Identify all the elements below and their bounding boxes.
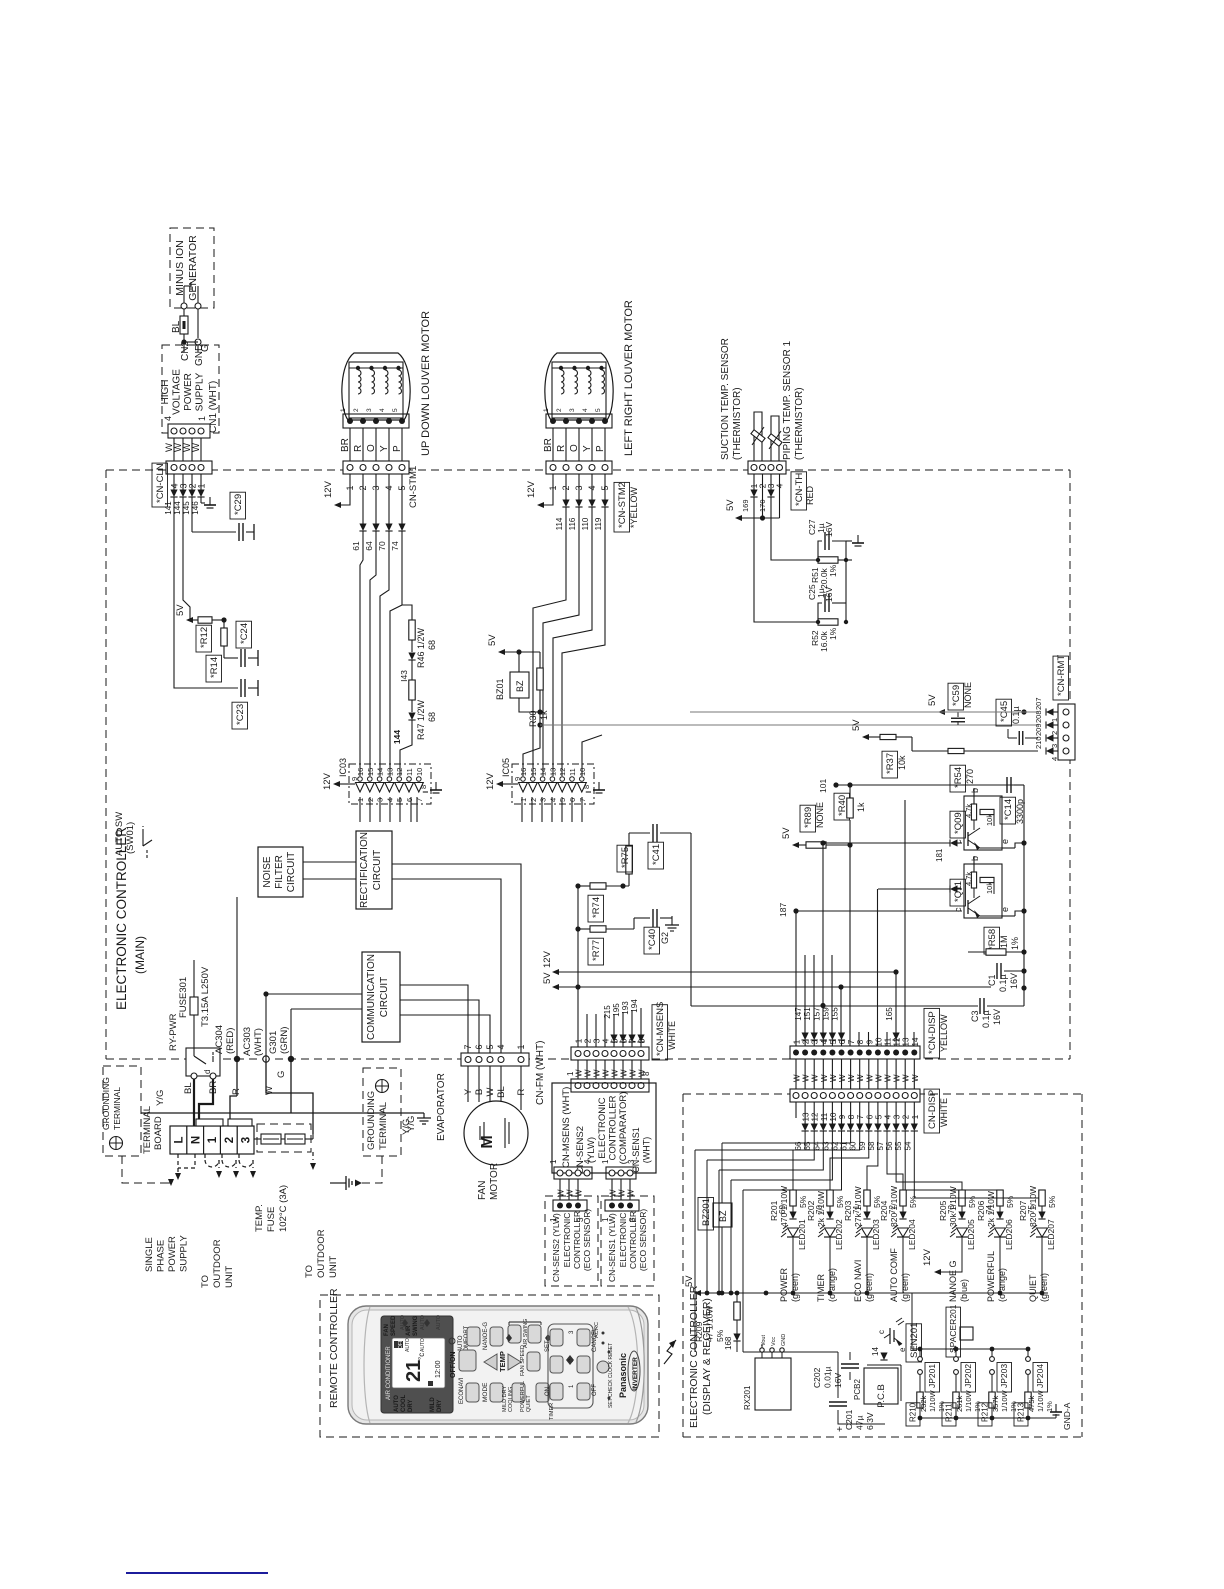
5V arrow top right xyxy=(938,709,945,715)
rectification circuit box xyxy=(356,831,392,909)
svg-text:5: 5 xyxy=(595,408,602,412)
svg-text:MILD: MILD xyxy=(430,1397,436,1412)
svg-text:4: 4 xyxy=(884,1114,893,1119)
svg-text:3: 3 xyxy=(241,1137,253,1143)
resistor R30 1k xyxy=(539,652,541,668)
svg-text:IC03: IC03 xyxy=(338,758,348,777)
wire R AC304 xyxy=(236,897,238,1059)
connector CN-CLN on main board edge xyxy=(166,461,212,474)
connector CN-RMT xyxy=(1058,704,1075,760)
svg-text:144: 144 xyxy=(392,730,402,744)
svg-text:*R58: *R58 xyxy=(987,929,998,950)
svg-text:7: 7 xyxy=(415,798,424,802)
svg-text:COOL: COOL xyxy=(401,1394,407,1412)
svg-text:4: 4 xyxy=(820,1039,829,1044)
wire BL to terminal L xyxy=(193,1079,195,1129)
svg-text:SPACER201: SPACER201 xyxy=(948,1304,958,1353)
svg-text:W: W xyxy=(485,1087,496,1096)
diodes on CN-STM1 wires xyxy=(362,474,364,524)
svg-text:e: e xyxy=(1000,907,1010,912)
staircase wires CN-DISP white to left components xyxy=(695,1131,805,1150)
svg-text:2: 2 xyxy=(224,1137,236,1143)
resistor R58 1M 1% xyxy=(984,927,1000,954)
svg-text:64: 64 xyxy=(364,541,374,551)
svg-text:59: 59 xyxy=(858,1141,867,1150)
svg-text:(green): (green) xyxy=(790,1273,800,1302)
svg-text:2: 2 xyxy=(529,798,538,802)
svg-text:12: 12 xyxy=(395,768,404,776)
svg-text:AUTO: AUTO xyxy=(420,1338,426,1352)
remote controller dashed box xyxy=(320,1295,659,1437)
svg-text:C1: C1 xyxy=(987,974,997,986)
svg-text:187: 187 xyxy=(778,903,788,917)
svg-text:FUSE301: FUSE301 xyxy=(178,977,189,1018)
svg-text:1: 1 xyxy=(207,1136,219,1143)
capacitor C59 NONE xyxy=(948,683,964,710)
svg-text:2: 2 xyxy=(556,408,563,412)
svg-text:2: 2 xyxy=(902,1114,911,1119)
svg-text:NONE: NONE xyxy=(963,682,973,708)
svg-text:168: 168 xyxy=(724,1336,733,1350)
svg-text:(orange): (orange) xyxy=(997,1268,1007,1302)
capacitor C14 3300p xyxy=(1006,777,1008,793)
svg-text:WHITE: WHITE xyxy=(939,1098,949,1127)
svg-text:R: R xyxy=(353,445,364,452)
buzzer BZ201 xyxy=(721,1143,723,1203)
svg-text:DRY: DRY xyxy=(408,1400,414,1412)
resistor R37 10k xyxy=(869,736,880,738)
svg-text:66: 66 xyxy=(794,1141,803,1150)
svg-text:TERMINAL: TERMINAL xyxy=(112,1087,122,1130)
jumper bottom bus to GND-A xyxy=(920,1417,1056,1419)
svg-text:10k: 10k xyxy=(897,755,907,770)
wire vertical 578 xyxy=(577,886,579,1053)
svg-text:CONTROLLER: CONTROLLER xyxy=(572,1211,582,1269)
svg-text:73: 73 xyxy=(947,1205,956,1214)
svg-text:AC303: AC303 xyxy=(242,1027,253,1056)
motor coils xyxy=(349,367,403,369)
svg-text:169: 169 xyxy=(741,499,750,512)
svg-text:°c: °c xyxy=(417,1353,426,1360)
svg-text:14: 14 xyxy=(376,768,385,776)
svg-text:*CN-MSENS: *CN-MSENS xyxy=(655,1002,666,1056)
svg-text:W: W xyxy=(902,1074,911,1082)
svg-text:e: e xyxy=(1000,839,1010,844)
remote body xyxy=(348,1306,648,1424)
svg-text:3: 3 xyxy=(366,408,373,412)
svg-text:8: 8 xyxy=(419,785,428,789)
svg-text:NOISE: NOISE xyxy=(262,856,273,887)
diodes below CN-DISP white nets 66-54 xyxy=(804,1102,806,1124)
led column LED201 POWER xyxy=(793,1131,860,1190)
svg-text:47µ: 47µ xyxy=(855,1416,865,1430)
svg-text:SET: SET xyxy=(545,1340,551,1352)
svg-text:TIMER: TIMER xyxy=(549,1403,555,1420)
svg-text:LED204: LED204 xyxy=(907,1219,917,1250)
svg-text:55: 55 xyxy=(894,1141,903,1150)
earth symbol outdoor xyxy=(330,1182,346,1184)
svg-text:147: 147 xyxy=(794,1007,803,1021)
svg-text:63: 63 xyxy=(821,1141,830,1150)
svg-text:SUCTION TEMP. SENSOR: SUCTION TEMP. SENSOR xyxy=(720,338,731,460)
svg-text:1: 1 xyxy=(340,408,347,412)
wire bundle CN-STM2 to IC05 xyxy=(533,507,566,776)
svg-text:BOARD: BOARD xyxy=(153,1116,164,1150)
svg-text:141: 141 xyxy=(164,501,173,515)
svg-text:8: 8 xyxy=(637,1038,647,1043)
5V rail extension right xyxy=(906,1292,1048,1294)
svg-text:NONE: NONE xyxy=(815,802,825,828)
svg-text:*R74: *R74 xyxy=(591,897,602,918)
remote TEMP buttons xyxy=(484,1354,497,1370)
svg-text:74: 74 xyxy=(390,541,400,551)
connector CN-SENS1 comparator side xyxy=(606,1167,636,1179)
thermistor 2 loop xyxy=(771,416,779,461)
svg-text:69: 69 xyxy=(778,1205,787,1214)
svg-text:5V: 5V xyxy=(725,499,736,511)
rail 5V xyxy=(552,984,559,990)
svg-text:12V: 12V xyxy=(323,480,334,498)
svg-text:SUPPLY: SUPPLY xyxy=(195,372,206,411)
remote INVERTER logo xyxy=(628,1351,640,1391)
svg-text:12V: 12V xyxy=(485,772,496,790)
wires CN1 to CN-CLN with W labels xyxy=(173,438,175,461)
svg-text:10: 10 xyxy=(874,1037,883,1046)
diodes above CN-DISP yellow xyxy=(804,1040,806,1046)
power rail 5V with arrow xyxy=(186,617,193,623)
svg-text:9: 9 xyxy=(865,1039,874,1044)
label CN-DISP YELLOW xyxy=(924,1008,940,1058)
svg-text:5V: 5V xyxy=(542,972,553,984)
svg-text:*CN-DISP: *CN-DISP xyxy=(927,1011,938,1054)
svg-text:(COMPARATOR): (COMPARATOR) xyxy=(618,1092,629,1165)
leads 1 2 3 to outdoor unit xyxy=(205,1160,219,1167)
high voltage power supply box xyxy=(162,345,219,433)
diodes CN-MSENS nets 215 195 193 194 xyxy=(613,1042,615,1053)
diodes on CN-STM2 wires xyxy=(565,474,567,500)
svg-text:3: 3 xyxy=(811,1039,820,1044)
svg-text:CIRCUIT: CIRCUIT xyxy=(379,977,390,1018)
svg-text:6: 6 xyxy=(838,1039,847,1044)
svg-text:*C45: *C45 xyxy=(999,701,1010,722)
svg-text:G301: G301 xyxy=(268,1031,279,1054)
node AC303 WHT xyxy=(263,1056,269,1062)
svg-text:UNIT: UNIT xyxy=(328,1256,339,1278)
svg-text:GROUNDING: GROUNDING xyxy=(101,1077,111,1130)
svg-text:TERMINAL: TERMINAL xyxy=(378,1102,389,1150)
IC IC03 pin8 ground xyxy=(423,791,428,793)
svg-text:116: 116 xyxy=(568,517,577,530)
wires CN-CLN down to logic xyxy=(173,497,175,616)
svg-text:JP201: JP201 xyxy=(927,1364,937,1388)
svg-text:5%: 5% xyxy=(1047,1195,1057,1208)
svg-text:I43: I43 xyxy=(399,670,409,682)
svg-text:14: 14 xyxy=(911,1037,920,1046)
earth to outdoor xyxy=(312,1152,314,1160)
jumper JP204 resistor R213 xyxy=(1026,1347,1031,1352)
svg-text:BZ01: BZ01 xyxy=(495,678,505,700)
svg-text:(WHT): (WHT) xyxy=(642,1137,652,1164)
svg-text:9: 9 xyxy=(838,1114,847,1119)
svg-text:64: 64 xyxy=(812,1141,821,1150)
svg-text:215: 215 xyxy=(603,1005,612,1019)
svg-text:21: 21 xyxy=(403,1360,425,1382)
svg-text:COMMUNICATION: COMMUNICATION xyxy=(366,954,377,1040)
svg-text:TIMER: TIMER xyxy=(816,1274,826,1302)
svg-text:P.C.B: P.C.B xyxy=(876,1384,887,1408)
svg-text:*CN-RMT: *CN-RMT xyxy=(1056,655,1067,696)
dashed leads L N down xyxy=(177,1154,179,1172)
spacer SPACER201 xyxy=(946,1307,961,1357)
led column LED204 AUTO COMF xyxy=(887,1131,903,1190)
svg-text:11: 11 xyxy=(568,768,577,776)
svg-text:12: 12 xyxy=(893,1037,902,1046)
svg-text:10k: 10k xyxy=(985,814,994,826)
svg-text:B: B xyxy=(474,1089,485,1095)
svg-text:W: W xyxy=(191,443,202,452)
transistor Q09 box xyxy=(964,796,1002,850)
svg-text:8: 8 xyxy=(582,785,591,789)
svg-text:UNIT: UNIT xyxy=(224,1266,235,1288)
svg-text:12V: 12V xyxy=(322,772,333,790)
svg-text:12:00: 12:00 xyxy=(435,1360,442,1378)
svg-text:5V: 5V xyxy=(781,827,792,839)
svg-text:MODE: MODE xyxy=(482,1382,489,1402)
svg-text:(WHT): (WHT) xyxy=(253,1028,264,1056)
svg-text:2: 2 xyxy=(802,1039,811,1044)
svg-text:R211: R211 xyxy=(945,1403,954,1422)
wires CN2/GND into HVPS box xyxy=(183,342,185,352)
svg-text:R46 1/2W: R46 1/2W xyxy=(416,627,426,668)
svg-text:CN-SENS1: CN-SENS1 xyxy=(631,1127,641,1173)
resistor R77 xyxy=(590,926,606,932)
vertical common line right xyxy=(1023,785,1025,1006)
svg-text:Y: Y xyxy=(582,445,593,452)
svg-text:(THERMISTOR): (THERMISTOR) xyxy=(794,387,805,460)
svg-text:1/10W: 1/10W xyxy=(964,1389,973,1412)
minus ion generator terminals xyxy=(183,286,185,303)
svg-text:Y: Y xyxy=(379,445,390,452)
terminal board top extensions xyxy=(196,1119,223,1126)
svg-text:5: 5 xyxy=(558,798,567,802)
svg-text:114: 114 xyxy=(555,517,564,530)
svg-text:FILTER: FILTER xyxy=(274,855,285,889)
svg-text:4: 4 xyxy=(379,408,386,412)
svg-text:10: 10 xyxy=(415,768,424,776)
svg-text:LED206: LED206 xyxy=(1004,1219,1014,1250)
wire buzzer to junction xyxy=(519,698,540,712)
gray rail py712 from left xyxy=(690,711,1038,713)
RC network R51 C27 xyxy=(771,497,818,560)
led column LED207 QUIET xyxy=(914,1131,1042,1198)
svg-text:CN-FM (WHT): CN-FM (WHT) xyxy=(535,1041,546,1105)
svg-text:6: 6 xyxy=(865,1114,874,1119)
svg-text:FAN: FAN xyxy=(384,1324,390,1336)
svg-text:193: 193 xyxy=(621,1001,630,1015)
svg-text:QUIET: QUIET xyxy=(526,1395,532,1412)
svg-text:47 1/10W: 47 1/10W xyxy=(705,1306,715,1342)
svg-text:0.1µ: 0.1µ xyxy=(1011,706,1021,724)
svg-text:5V: 5V xyxy=(851,719,862,731)
svg-text:*R12: *R12 xyxy=(199,627,210,648)
svg-text:1: 1 xyxy=(543,408,550,412)
resistor R12 xyxy=(193,619,198,621)
svg-text:BZ: BZ xyxy=(515,680,525,692)
svg-text:b: b xyxy=(970,788,980,793)
svg-text:*Q09: *Q09 xyxy=(953,812,964,834)
svg-text:*C41: *C41 xyxy=(651,844,662,865)
svg-text:61: 61 xyxy=(351,541,361,551)
grounding terminal right lead xyxy=(368,1156,382,1183)
svg-text:RC: RC xyxy=(594,1322,600,1330)
capacitor C41 xyxy=(629,832,650,834)
svg-text:1: 1 xyxy=(549,1159,558,1164)
motor body LEFTRIGHT xyxy=(545,353,613,420)
5V rail display xyxy=(694,1290,701,1296)
svg-text:LED203: LED203 xyxy=(871,1219,881,1250)
connector CN1 xyxy=(168,424,210,438)
svg-text:R209: R209 xyxy=(694,1321,704,1342)
label CN-DISP WHITE xyxy=(924,1089,940,1133)
diodes to CN-RMT nets 207-210 xyxy=(1046,708,1054,715)
svg-text:70: 70 xyxy=(377,541,387,551)
led column LED205 NANOE G xyxy=(896,1131,962,1190)
svg-text:62: 62 xyxy=(831,1141,840,1150)
svg-text:YELLOW: YELLOW xyxy=(939,1014,949,1052)
svg-text:W: W xyxy=(829,1074,838,1082)
svg-text:1/10W: 1/10W xyxy=(1000,1389,1009,1412)
svg-text:G: G xyxy=(276,1071,287,1078)
svg-text:AC304: AC304 xyxy=(214,1025,225,1054)
svg-text:(ECO SENSOR): (ECO SENSOR) xyxy=(638,1209,648,1272)
wire G down and across xyxy=(290,1009,292,1059)
motor connector xyxy=(343,414,409,428)
svg-text:16V: 16V xyxy=(1009,973,1019,989)
svg-text:(YLW): (YLW) xyxy=(586,1137,597,1163)
12V feed CN-STM1 pin1 xyxy=(341,474,350,505)
fan motor circle xyxy=(464,1101,528,1165)
label CN-STM2 YELLOW xyxy=(614,482,630,532)
svg-text:12V: 12V xyxy=(526,480,537,498)
connector CN-FM xyxy=(461,1053,529,1066)
svg-text:(GRN): (GRN) xyxy=(279,1027,290,1054)
IC IC03 common base line xyxy=(356,782,424,784)
IC IC05 12V arrow xyxy=(496,781,503,787)
resistor R14 xyxy=(223,620,225,628)
svg-text:IC05: IC05 xyxy=(501,758,511,777)
motor wires with color labels xyxy=(552,428,554,461)
svg-text:ON: ON xyxy=(545,1387,551,1396)
svg-text:54: 54 xyxy=(903,1141,912,1150)
svg-text:AIR CONDITIONER: AIR CONDITIONER xyxy=(386,1346,392,1400)
svg-text:TO: TO xyxy=(200,1275,211,1288)
svg-text:5V: 5V xyxy=(175,604,186,616)
wires between CN-MSENS rows W labels xyxy=(577,1060,579,1079)
svg-text:SEN201: SEN201 xyxy=(909,1323,920,1358)
svg-text:0.1µ: 0.1µ xyxy=(981,1010,991,1028)
svg-text:12: 12 xyxy=(558,768,567,776)
ground G2 xyxy=(671,916,673,925)
svg-text:DRY: DRY xyxy=(437,1400,443,1412)
svg-text:*C40: *C40 xyxy=(647,929,658,950)
svg-text:13: 13 xyxy=(902,1037,911,1046)
svg-text:QUIET: QUIET xyxy=(1028,1274,1038,1302)
svg-text:POWERFUL: POWERFUL xyxy=(986,1251,996,1302)
svg-text:W: W xyxy=(847,1074,856,1082)
svg-text:*C24: *C24 xyxy=(239,623,250,644)
svg-text:LED207: LED207 xyxy=(1046,1219,1056,1250)
display board dashed box xyxy=(683,1093,1082,1095)
svg-text:1%: 1% xyxy=(1010,937,1020,950)
svg-text:1%: 1% xyxy=(828,564,838,577)
svg-text:(orange): (orange) xyxy=(827,1268,837,1302)
svg-text:AUTO: AUTO xyxy=(436,1314,442,1330)
led column LED206 POWERFUL xyxy=(905,1131,1000,1190)
svg-text:RECTIFICATION: RECTIFICATION xyxy=(359,832,370,908)
svg-text:11: 11 xyxy=(405,768,414,776)
svg-text:AUTO: AUTO xyxy=(405,1338,411,1352)
IC IC05 box xyxy=(512,764,594,804)
diodes below CN-CLN with nets xyxy=(173,474,175,490)
svg-text:3: 3 xyxy=(893,1114,902,1119)
jumper JP202 resistor R211 xyxy=(954,1347,959,1352)
svg-text:R210: R210 xyxy=(909,1402,918,1422)
svg-text:LED202: LED202 xyxy=(834,1219,844,1250)
svg-text:*C14: *C14 xyxy=(1003,799,1014,820)
svg-text:270: 270 xyxy=(965,769,975,784)
svg-text:*R75: *R75 xyxy=(620,847,631,868)
connector CN-TH xyxy=(748,461,786,474)
svg-text:1: 1 xyxy=(197,416,207,421)
svg-text:210: 210 xyxy=(1034,736,1043,749)
svg-text:JP202: JP202 xyxy=(963,1364,973,1388)
svg-text:LED205: LED205 xyxy=(966,1219,976,1250)
svg-text:3: 3 xyxy=(539,798,548,802)
svg-text:119: 119 xyxy=(594,517,603,530)
svg-text:1k: 1k xyxy=(856,802,866,812)
wire CN2-GND bus into HVPS xyxy=(184,341,198,343)
svg-text:*CN-STM2: *CN-STM2 xyxy=(617,482,628,528)
svg-text:CIRCUIT: CIRCUIT xyxy=(372,850,383,891)
svg-text:R212: R212 xyxy=(981,1402,990,1422)
svg-text:195: 195 xyxy=(612,1003,621,1017)
wires above CN-DISP yellow verticals xyxy=(795,911,797,1046)
svg-text:CN-SENS1 (YLW): CN-SENS1 (YLW) xyxy=(607,1213,617,1282)
svg-text:W: W xyxy=(820,1074,829,1082)
wire BR to terminal N xyxy=(199,1079,213,1121)
svg-text:TEMP: TEMP xyxy=(498,1351,507,1372)
svg-text:R213: R213 xyxy=(1017,1402,1026,1422)
wire BL to CN2 xyxy=(183,309,185,316)
svg-text:1: 1 xyxy=(519,798,528,802)
remote LCD content xyxy=(394,1341,403,1348)
svg-text:R: R xyxy=(231,1088,242,1095)
5V arrow R37 xyxy=(862,734,869,740)
svg-text:POWER: POWER xyxy=(167,1236,178,1272)
svg-text:5V: 5V xyxy=(684,1275,695,1287)
svg-text:3: 3 xyxy=(569,408,576,412)
svg-text:15: 15 xyxy=(529,768,538,776)
buzzer BZ01 xyxy=(518,652,520,672)
svg-text:AUTO: AUTO xyxy=(394,1395,400,1412)
svg-text:CN-STM1: CN-STM1 xyxy=(408,466,419,508)
resistor R54 270 xyxy=(948,748,964,753)
svg-text:BL: BL xyxy=(183,1082,194,1094)
5V feed thermistors xyxy=(762,474,764,518)
remote AIR SWING buttons xyxy=(508,1325,521,1343)
node CN2 xyxy=(183,334,185,342)
svg-text:SINGLE: SINGLE xyxy=(144,1237,155,1272)
